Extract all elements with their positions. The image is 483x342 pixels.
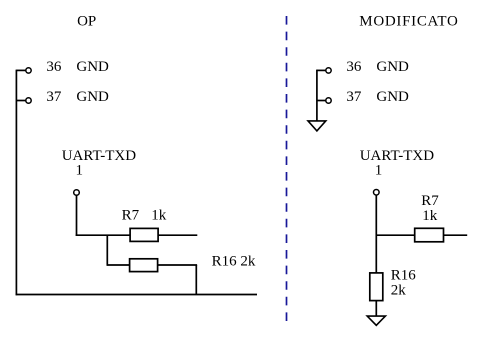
- divider dashed separator line: [286, 16, 288, 326]
- svg-text:1k: 1k: [151, 208, 167, 224]
- wire junction to R7 left (right): [376, 234, 414, 236]
- ground symbol (under GND rail): [308, 121, 326, 131]
- svg-text:GND: GND: [76, 59, 109, 75]
- wire left GND rail vertical: [15, 70, 17, 296]
- svg-text:UART-TXD: UART-TXD: [360, 148, 435, 164]
- resistor R16 body: [130, 259, 158, 272]
- wire right GND rail vertical: [316, 70, 318, 121]
- pin 37 open-circle terminal (right): [326, 98, 331, 103]
- svg-text:1: 1: [75, 162, 83, 178]
- svg-text:GND: GND: [76, 89, 109, 105]
- svg-text:37: 37: [346, 89, 362, 105]
- wire R7 right: [158, 234, 197, 236]
- wire to R7 left: [76, 234, 130, 236]
- wire R7 right end (right): [444, 234, 468, 236]
- wire R16 bottom to ground (right): [375, 301, 377, 317]
- wire stub pin 37: [16, 100, 25, 102]
- svg-text:36: 36: [346, 59, 362, 75]
- wire down to bottom bus: [195, 265, 197, 295]
- svg-text:37: 37: [46, 89, 62, 105]
- svg-text:OP: OP: [77, 14, 96, 30]
- wire stub pin 36: [16, 69, 25, 71]
- wire stub pin 36 (right): [317, 69, 326, 71]
- pin 36 open-circle terminal: [26, 68, 31, 73]
- svg-text:36: 36: [46, 59, 62, 75]
- svg-text:GND: GND: [376, 89, 409, 105]
- resistor R16 body (right): [370, 273, 383, 301]
- ground symbol (under R16): [367, 316, 385, 325]
- pin 1 open-circle terminal: [74, 190, 80, 196]
- svg-text:R7: R7: [421, 193, 439, 209]
- pin 37 open-circle terminal: [26, 98, 31, 103]
- svg-text:1: 1: [375, 162, 383, 178]
- wire R16 right: [158, 264, 198, 266]
- svg-text:R16 2k: R16 2k: [212, 253, 256, 269]
- svg-text:R7: R7: [122, 208, 140, 224]
- svg-text:R16: R16: [391, 268, 417, 284]
- svg-text:GND: GND: [376, 59, 409, 75]
- pin 1 open-circle terminal (right): [374, 190, 380, 196]
- wire UART-TXD vertical drop to R16 (right): [375, 195, 377, 273]
- resistor R7 body: [130, 228, 158, 241]
- svg-text:MODIFICATO: MODIFICATO: [359, 13, 458, 29]
- resistor R7 body (right): [415, 228, 444, 242]
- wire bottom GND bus horizontal: [16, 294, 257, 296]
- pin 36 open-circle terminal (right): [326, 68, 331, 73]
- wire to R16 left: [107, 264, 129, 266]
- svg-text:1k: 1k: [422, 208, 438, 224]
- wire branch junction down to R16 row: [106, 235, 108, 266]
- wire stub pin 37 (right): [317, 100, 326, 102]
- svg-text:UART-TXD: UART-TXD: [62, 148, 137, 164]
- svg-text:2k: 2k: [391, 282, 407, 298]
- wire UART-TXD vertical drop: [76, 195, 78, 236]
